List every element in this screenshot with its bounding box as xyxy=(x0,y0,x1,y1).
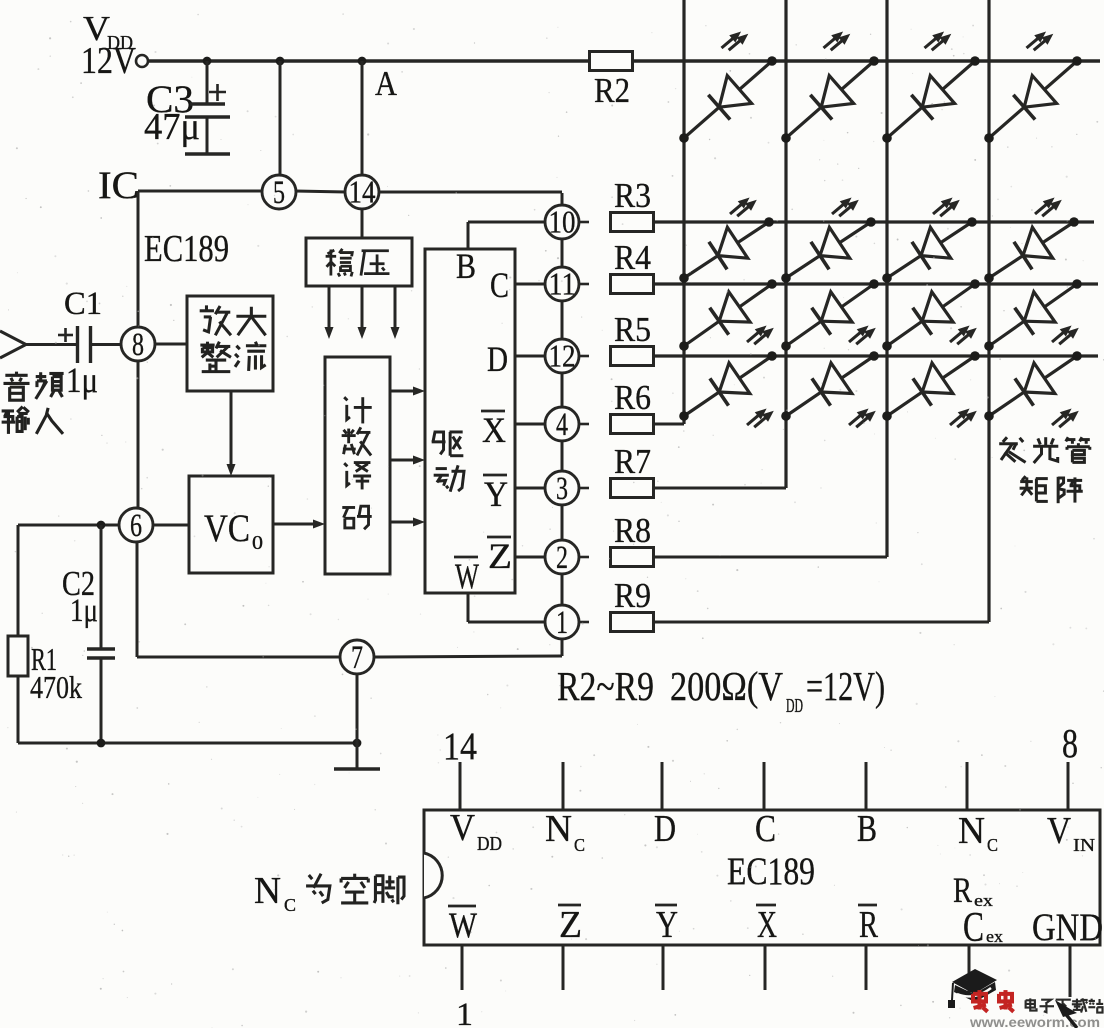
svg-text:R5: R5 xyxy=(614,310,651,349)
svg-text:A: A xyxy=(375,64,397,103)
svg-text:470k: 470k xyxy=(30,670,82,705)
svg-text:W: W xyxy=(449,905,478,945)
svg-text:N: N xyxy=(545,808,572,850)
svg-text:Y: Y xyxy=(484,474,508,514)
svg-text:12V: 12V xyxy=(81,40,136,82)
svg-text:V: V xyxy=(450,807,475,849)
svg-text:6: 6 xyxy=(130,507,142,544)
svg-text:4: 4 xyxy=(556,406,568,443)
svg-text:C1: C1 xyxy=(64,285,102,322)
svg-text:DD: DD xyxy=(477,834,502,855)
svg-text:R8: R8 xyxy=(614,511,651,550)
svg-text:47μ: 47μ xyxy=(144,106,200,148)
svg-text:C: C xyxy=(490,265,509,305)
svg-text:=12V): =12V) xyxy=(806,664,885,709)
svg-text:C: C xyxy=(284,895,296,915)
svg-text:1μ: 1μ xyxy=(66,360,98,400)
svg-text:Z: Z xyxy=(559,904,582,946)
svg-text:Y: Y xyxy=(656,904,678,946)
svg-text:0: 0 xyxy=(252,533,263,554)
svg-text:VC: VC xyxy=(204,506,250,550)
svg-text:R3: R3 xyxy=(614,176,651,215)
svg-text:Z: Z xyxy=(488,536,512,576)
svg-text:2: 2 xyxy=(556,539,568,576)
svg-text:B: B xyxy=(456,246,476,286)
svg-text:www.eeworm.com: www.eeworm.com xyxy=(969,1014,1100,1028)
svg-text:X: X xyxy=(482,410,506,450)
svg-text:EC189: EC189 xyxy=(144,228,229,270)
svg-text:N: N xyxy=(958,810,985,852)
svg-text:1: 1 xyxy=(456,996,473,1028)
svg-text:R6: R6 xyxy=(614,378,651,417)
svg-text:C: C xyxy=(963,904,984,951)
svg-text:14: 14 xyxy=(349,175,376,210)
svg-text:10: 10 xyxy=(549,205,576,240)
svg-text:11: 11 xyxy=(549,267,576,302)
svg-text:N: N xyxy=(254,870,281,912)
svg-text:C: C xyxy=(987,835,998,855)
svg-text:X: X xyxy=(757,904,777,946)
svg-text:V: V xyxy=(1047,810,1071,852)
svg-text:8: 8 xyxy=(132,326,144,363)
svg-text:R2~R9: R2~R9 xyxy=(557,664,654,709)
svg-text:EC189: EC189 xyxy=(727,849,815,893)
svg-text:W: W xyxy=(455,556,480,596)
svg-text:D: D xyxy=(654,808,676,850)
svg-text:IC: IC xyxy=(98,163,139,207)
svg-text:R4: R4 xyxy=(614,238,651,277)
svg-text:8: 8 xyxy=(1062,721,1078,766)
svg-text:12: 12 xyxy=(549,339,576,374)
svg-text:B: B xyxy=(857,808,877,850)
svg-text:R9: R9 xyxy=(614,576,651,615)
svg-text:5: 5 xyxy=(273,174,285,211)
svg-text:GND: GND xyxy=(1032,905,1103,949)
svg-text:DD: DD xyxy=(786,696,803,717)
svg-text:200Ω(V: 200Ω(V xyxy=(670,664,783,709)
svg-text:D: D xyxy=(487,339,508,379)
svg-text:1μ: 1μ xyxy=(70,592,98,629)
svg-text:C: C xyxy=(574,835,585,855)
svg-text:R: R xyxy=(859,904,879,946)
svg-text:IN: IN xyxy=(1073,835,1095,855)
svg-text:ex: ex xyxy=(986,927,1004,946)
svg-text:14: 14 xyxy=(443,724,477,768)
svg-text:C: C xyxy=(755,808,776,850)
svg-text:R2: R2 xyxy=(594,71,630,110)
svg-text:1: 1 xyxy=(556,604,568,641)
svg-text:3: 3 xyxy=(556,470,568,507)
svg-text:7: 7 xyxy=(351,639,363,676)
svg-text:R7: R7 xyxy=(614,442,651,481)
